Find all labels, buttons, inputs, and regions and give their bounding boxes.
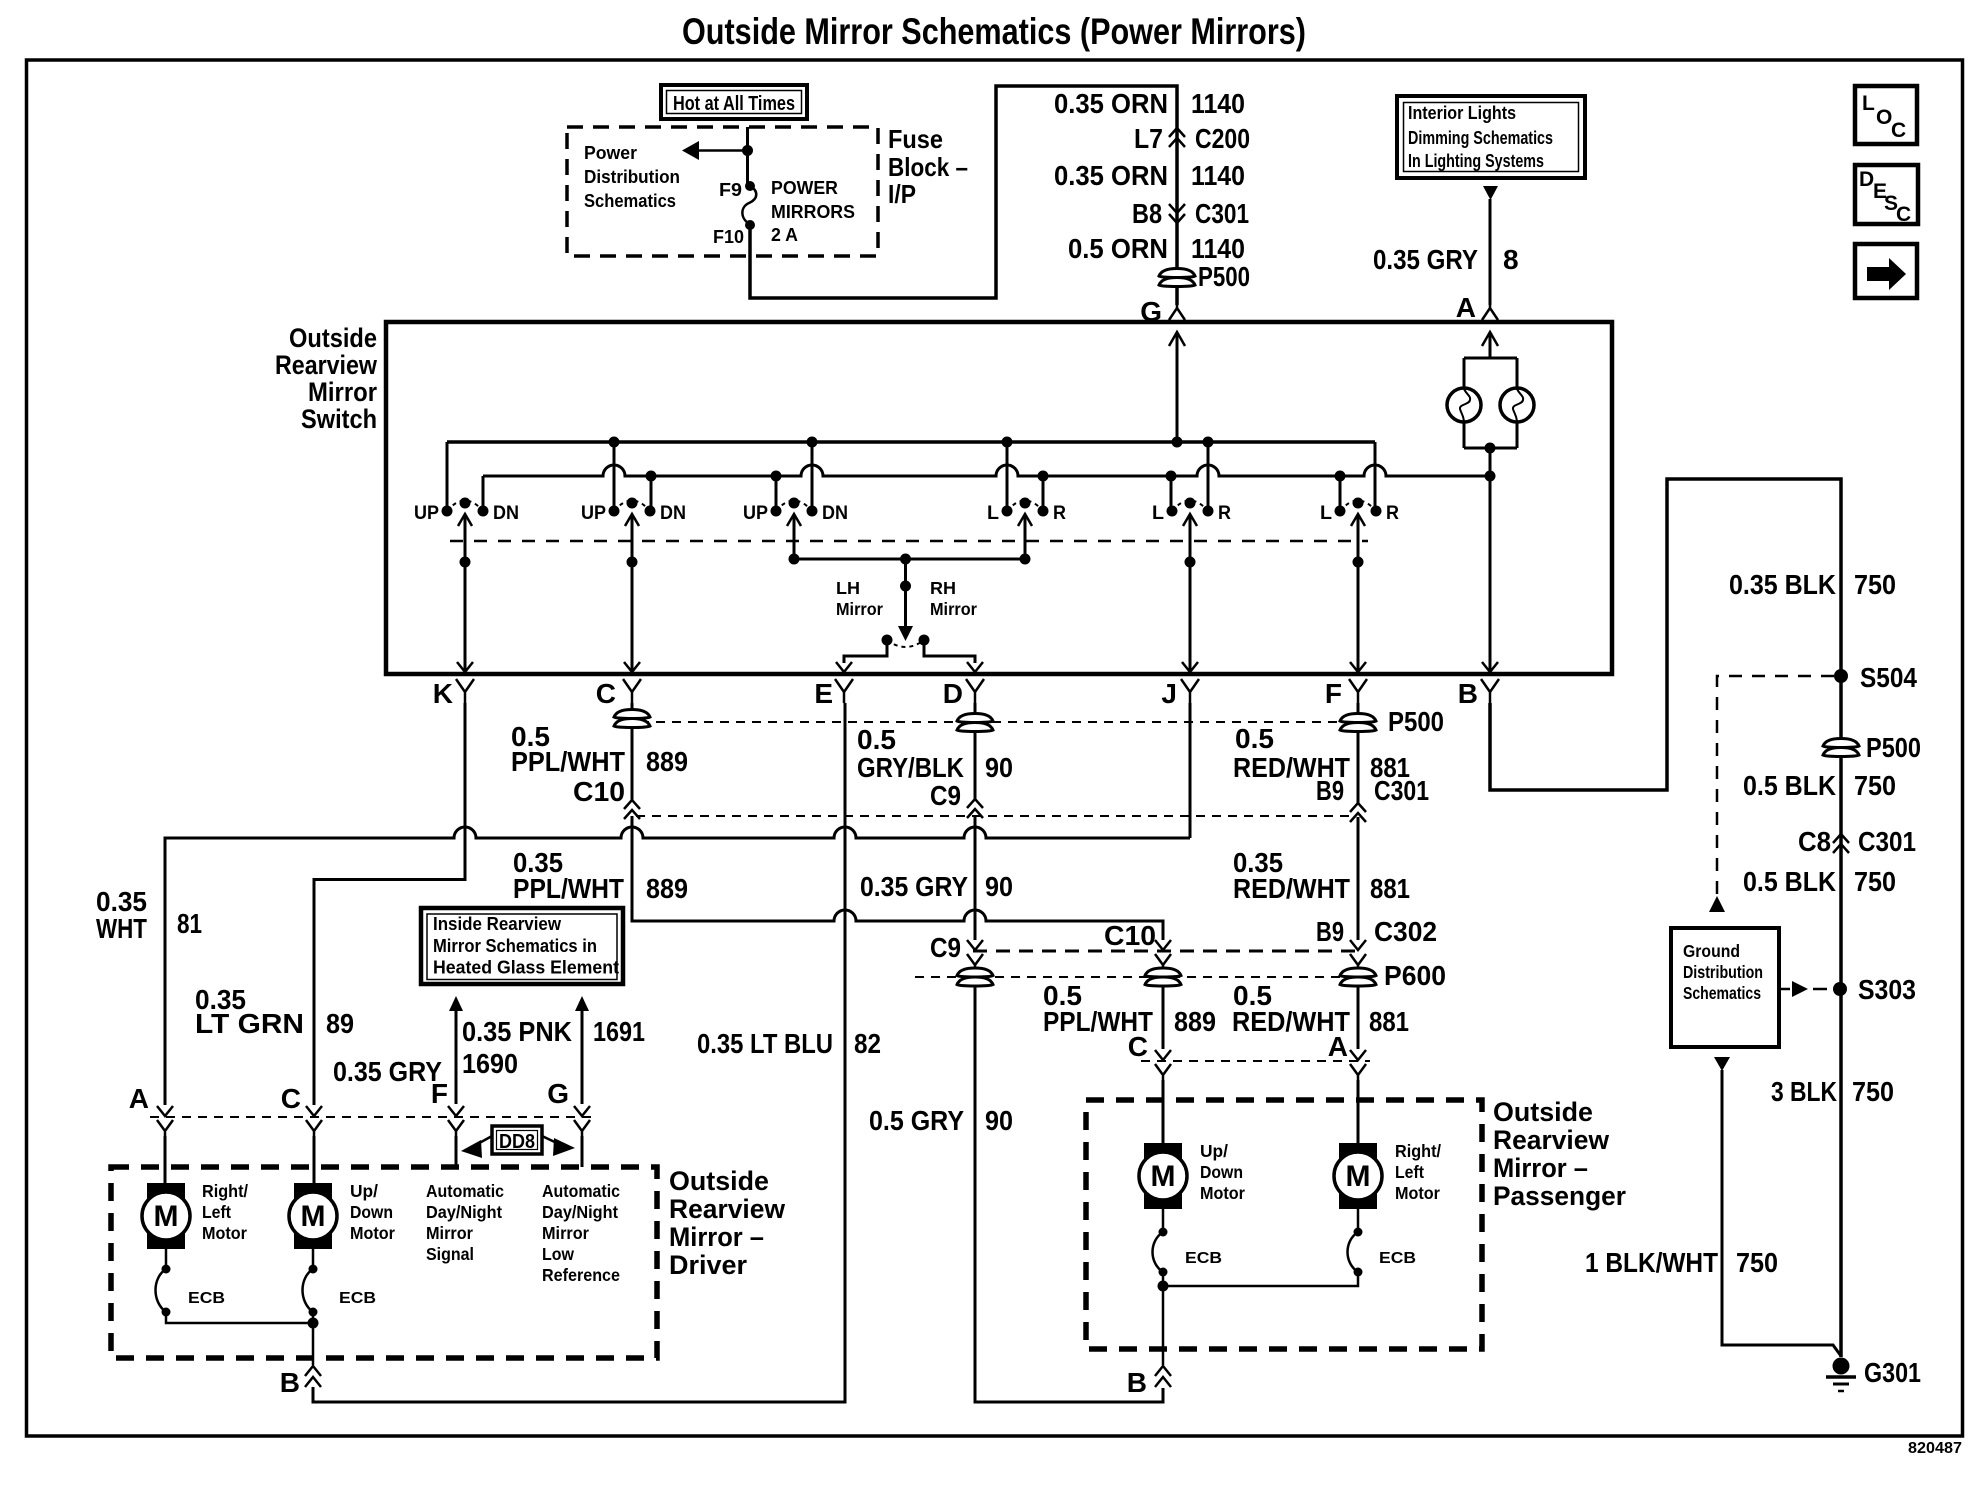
fuse block I/P dashed box — [567, 127, 878, 256]
svg-text:Driver: Driver — [669, 1250, 747, 1280]
wire: switch B to ground bus 0.35 BLK 750 — [1490, 479, 1841, 1357]
svg-text:Hot at All Times: Hot at All Times — [673, 93, 795, 115]
wire: left/right 1 common to selector — [1024, 514, 1027, 559]
terminal G of mirror switch — [1140, 296, 1185, 327]
svg-text:90: 90 — [985, 1105, 1013, 1136]
junction on second bus — [1166, 471, 1177, 482]
svg-text:L: L — [1152, 503, 1164, 524]
terminal B9 C302 into P600 (RED/WHT 881) — [1350, 940, 1366, 950]
wire: selector R to terminal D — [924, 645, 975, 663]
svg-text:Motor: Motor — [202, 1223, 247, 1243]
label: Power Distribution Schematics — [584, 143, 680, 211]
svg-text:Left: Left — [202, 1202, 231, 1222]
svg-text:C301: C301 — [1195, 198, 1249, 229]
connector C301 pin C8 — [1798, 826, 1916, 857]
switch driver up/down contacts (pivot x=465) — [414, 498, 519, 527]
svg-text:Outside Mirror Schematics (Pow: Outside Mirror Schematics (Power Mirrors… — [682, 11, 1306, 52]
label: Automatic Day/Night Mirror Low Reference — [542, 1181, 620, 1285]
svg-text:0.35 LT BLU: 0.35 LT BLU — [697, 1028, 833, 1059]
svg-text:MIRRORS: MIRRORS — [771, 202, 855, 222]
connector P600 at RED/WHT column — [1340, 968, 1376, 986]
junction on second bus — [771, 471, 782, 482]
splice S303 — [1833, 982, 1847, 996]
wire: switch common to terminal J — [1189, 514, 1192, 672]
svg-text:889: 889 — [646, 746, 688, 777]
wire: up/down 3 common to selector — [793, 514, 796, 559]
motor M (passenger right/left) — [1334, 1143, 1382, 1209]
label: 0.35 RED/WHT 881 — [1233, 847, 1410, 904]
connector DD8 — [492, 1126, 542, 1154]
svg-text:S504: S504 — [1860, 662, 1917, 693]
svg-text:1140: 1140 — [1191, 233, 1245, 264]
svg-text:L: L — [1320, 503, 1332, 524]
svg-text:Outside: Outside — [1493, 1097, 1593, 1127]
junction: lamp return joins second bus — [1485, 471, 1496, 482]
wire: switch supply bus (top) — [447, 440, 1375, 444]
ECB thermal breaker (driver up/down) — [303, 1265, 318, 1317]
svg-text:E: E — [814, 678, 833, 709]
switch left/right contacts 3 (pivot x=1358) — [1320, 498, 1399, 527]
switch left/right contacts 1 (pivot x=1025) — [987, 498, 1066, 527]
svg-text:1690: 1690 — [462, 1048, 518, 1079]
wire: switch common to terminal K — [464, 514, 467, 672]
label: 0.5 BLK 750 (lower) — [1743, 866, 1896, 897]
node: Hot at All Times label box — [661, 85, 807, 119]
svg-text:Right/: Right/ — [1395, 1141, 1441, 1161]
connector P500 on ground bus — [1823, 732, 1921, 763]
label: 0.35 ORN 1140 (middle) — [1054, 160, 1245, 191]
junction on supply bus — [807, 437, 818, 448]
svg-text:Heated Glass Element: Heated Glass Element — [433, 958, 619, 978]
svg-text:C8: C8 — [1798, 826, 1831, 857]
svg-text:Distribution: Distribution — [584, 167, 680, 187]
wire: A internal drop to lamps — [1482, 332, 1498, 346]
svg-text:0.35 GRY: 0.35 GRY — [860, 871, 968, 902]
svg-text:POWER: POWER — [771, 178, 838, 198]
svg-text:Outside: Outside — [669, 1166, 769, 1196]
svg-text:Day/Night: Day/Night — [426, 1202, 502, 1222]
icon: forward arrow box — [1855, 244, 1917, 298]
svg-text:C9: C9 — [930, 780, 961, 811]
connector plane dashed line (C301/C9/C10, y=816) — [636, 815, 1354, 817]
wire: selector feed junction — [794, 558, 1025, 561]
wire: interior lights to terminal A (0.35 GRY 8) — [1489, 199, 1492, 305]
svg-text:82: 82 — [854, 1028, 881, 1059]
svg-text:Motor: Motor — [350, 1223, 395, 1243]
svg-text:WHT: WHT — [96, 913, 147, 944]
label: Right/ Left Motor (passenger) — [1395, 1141, 1441, 1203]
svg-text:A: A — [1328, 1031, 1348, 1062]
junction on second bus — [1038, 471, 1049, 482]
svg-text:ECB: ECB — [1379, 1250, 1416, 1267]
icon: LOC box — [1855, 86, 1917, 144]
svg-text:Rearview: Rearview — [1493, 1125, 1610, 1155]
svg-text:0.5 BLK: 0.5 BLK — [1743, 866, 1836, 897]
node: Interior Lights Dimming Schematics in Lighting Systems box — [1397, 96, 1585, 178]
junction on supply bus — [1172, 437, 1183, 448]
svg-text:Rearview: Rearview — [669, 1194, 786, 1224]
junction on supply bus — [609, 437, 620, 448]
node: Inside Rearview Mirror Schematics in Heated Glass Element box — [421, 908, 623, 984]
label: 0.5 GRY/BLK 90 / C9 — [857, 724, 1013, 811]
connector C9 (0.5 GRY/BLK to 0.35 GRY) — [967, 799, 983, 818]
wire: 0.5 GRY 90 to passenger B — [975, 985, 1163, 1402]
svg-text:F10: F10 — [713, 227, 744, 247]
ECB thermal breaker (passenger up/down) — [1153, 1228, 1168, 1277]
svg-text:Mirror –: Mirror – — [669, 1222, 764, 1252]
svg-text:Outside: Outside — [289, 323, 377, 353]
svg-text:0.5: 0.5 — [857, 724, 896, 755]
svg-text:L7: L7 — [1134, 123, 1163, 154]
terminal G of driver mirror — [574, 1106, 590, 1116]
outside rearview mirror driver dashed box — [111, 1167, 657, 1358]
arrow: ground distribution box to S303 — [1779, 981, 1827, 997]
svg-text:I/P: I/P — [888, 179, 916, 209]
svg-text:K: K — [433, 678, 453, 709]
svg-text:RH: RH — [930, 578, 956, 598]
svg-text:0.5 GRY: 0.5 GRY — [869, 1105, 964, 1136]
svg-text:G: G — [547, 1078, 569, 1109]
label: Automatic Day/Night Mirror Signal — [426, 1181, 504, 1264]
mechanical coupling dashed line — [450, 540, 1368, 543]
svg-text:0.35 ORN: 0.35 ORN — [1054, 160, 1168, 191]
svg-text:M: M — [301, 1200, 326, 1233]
label: Up/ Down Motor (passenger) — [1200, 1141, 1245, 1203]
svg-text:C: C — [281, 1083, 301, 1114]
wire: arrow to Power Distribution Schematics — [682, 141, 748, 160]
label: 0.35 GRY 8 — [1373, 244, 1519, 275]
svg-text:F9: F9 — [719, 180, 742, 200]
svg-text:DN: DN — [822, 503, 848, 524]
outside rearview mirror switch box — [386, 322, 1612, 674]
label: 0.5 PPL/WHT 889 / C10 — [511, 721, 688, 807]
svg-text:2 A: 2 A — [771, 225, 798, 245]
terminal C of mirror switch — [596, 678, 641, 709]
wire: selector L to terminal E — [844, 645, 887, 663]
svg-text:889: 889 — [646, 873, 688, 904]
driver mirror connector dashed line y=1117 — [150, 1116, 597, 1118]
label: 0.5 PPL/WHT 889 (passenger) — [1043, 980, 1216, 1037]
svg-text:G301: G301 — [1864, 1357, 1921, 1388]
terminal B of mirror switch — [1458, 678, 1499, 709]
svg-text:Interior Lights: Interior Lights — [1408, 103, 1516, 123]
wire: switch common to terminal F — [1357, 514, 1360, 672]
wire: hot feed into fuse F9 — [746, 127, 749, 183]
connector P500 at D — [957, 714, 993, 732]
svg-text:Low: Low — [542, 1244, 574, 1264]
svg-text:Mirror: Mirror — [930, 599, 977, 619]
svg-text:C: C — [1891, 119, 1906, 142]
svg-text:0.5 BLK: 0.5 BLK — [1743, 770, 1836, 801]
terminal A of mirror switch — [1456, 292, 1498, 323]
connector row dashed line through P600, y=977 — [915, 976, 1378, 978]
svg-text:LT GRN: LT GRN — [195, 1008, 304, 1039]
svg-text:C200: C200 — [1195, 123, 1250, 154]
wire: 0.5 RED/WHT 881 to passenger right/left motor — [1357, 985, 1360, 1049]
svg-text:Motor: Motor — [1200, 1183, 1245, 1203]
label: 3 BLK 750 — [1771, 1076, 1894, 1107]
terminal D of mirror switch — [943, 678, 984, 709]
svg-text:D: D — [943, 678, 963, 709]
wire: fuse F10 output to switch terminal G (0.5 ORN 1140) — [750, 86, 1177, 305]
svg-text:81: 81 — [177, 908, 202, 939]
wire: driver ECB common join — [166, 1312, 313, 1365]
terminal C of driver mirror — [306, 1106, 322, 1116]
label: Outside Rearview Mirror Switch — [275, 323, 378, 434]
svg-text:B9: B9 — [1316, 916, 1344, 947]
wire: C column 0.5 PPL/WHT 889 — [631, 703, 634, 712]
svg-text:M: M — [154, 1200, 179, 1233]
wire: 0.35 RED/WHT 881 down to C302 — [1357, 817, 1360, 940]
svg-text:889: 889 — [1174, 1006, 1216, 1037]
connector C301 pin B8 — [1132, 198, 1249, 229]
terminal E of mirror switch — [814, 678, 853, 709]
switch up/down contacts 3 (pivot x=794) — [743, 498, 848, 527]
svg-text:P500: P500 — [1866, 732, 1921, 763]
svg-text:GRY/BLK: GRY/BLK — [857, 752, 964, 783]
terminal C10 into P600 (PPL/WHT 889) — [1155, 940, 1171, 950]
connector P500 at F — [1340, 714, 1376, 732]
label: 0.35 LT GRN 89 — [195, 984, 354, 1039]
svg-text:1140: 1140 — [1191, 160, 1245, 191]
wire: passenger ECB common join — [1163, 1272, 1358, 1365]
wire: lamp return to terminal B — [1489, 476, 1492, 672]
label: Outside Rearview Mirror - Driver — [669, 1166, 786, 1280]
label: 0.5 RED/WHT 881 (passenger) — [1232, 980, 1409, 1037]
wire: G internal drop to supply bus — [1169, 332, 1185, 346]
connector P500 on ORN feed — [1159, 261, 1250, 292]
svg-text:Ground: Ground — [1683, 941, 1740, 961]
wire: motors to ECBs (passenger) — [1162, 1209, 1165, 1232]
svg-text:B8: B8 — [1132, 198, 1162, 229]
svg-text:A: A — [1456, 292, 1476, 323]
svg-text:C: C — [596, 678, 616, 709]
svg-text:C10: C10 — [573, 776, 625, 807]
motor M (driver up/down) — [289, 1183, 337, 1249]
connector C10 (0.5 to 0.35 PPL/WHT) — [624, 800, 640, 819]
svg-text:Switch: Switch — [301, 404, 377, 434]
svg-text:P500: P500 — [1198, 261, 1250, 292]
icon: DESC box — [1855, 165, 1918, 226]
svg-text:D: D — [1859, 168, 1874, 191]
label: Fuse Block - I/P — [888, 124, 968, 209]
svg-text:Dimming Schematics: Dimming Schematics — [1408, 128, 1553, 148]
svg-text:Rearview: Rearview — [275, 350, 378, 380]
terminal B of driver mirror — [280, 703, 845, 1402]
terminal C of passenger mirror — [1155, 1050, 1171, 1060]
node: Ground Distribution Schematics box — [1671, 928, 1779, 1047]
svg-text:DD8: DD8 — [499, 1131, 535, 1153]
svg-text:C10: C10 — [1104, 920, 1156, 951]
svg-text:0.35 GRY: 0.35 GRY — [1373, 244, 1478, 275]
svg-text:PPL/WHT: PPL/WHT — [513, 873, 624, 904]
svg-text:In Lighting Systems: In Lighting Systems — [1408, 151, 1544, 171]
svg-text:A: A — [129, 1083, 149, 1114]
outside rearview mirror passenger dashed box — [1086, 1100, 1482, 1349]
fuse F9/F10 POWER MIRRORS 2 A — [742, 181, 756, 230]
svg-text:B9: B9 — [1316, 775, 1344, 806]
svg-text:UP: UP — [414, 503, 439, 524]
terminal F of mirror switch — [1325, 678, 1367, 709]
wire: ground distribution box to G301 (1 BLK/WHT 750) — [1714, 1057, 1730, 1071]
junction on supply bus — [1002, 437, 1013, 448]
svg-text:P500: P500 — [1388, 706, 1444, 737]
svg-text:B: B — [1458, 678, 1478, 709]
svg-text:Mirror: Mirror — [542, 1223, 589, 1243]
wire: into passenger box — [1162, 1080, 1165, 1143]
svg-text:Up/: Up/ — [350, 1181, 378, 1201]
svg-text:Automatic: Automatic — [542, 1181, 620, 1201]
svg-text:750: 750 — [1852, 1076, 1894, 1107]
svg-text:M: M — [1151, 1160, 1176, 1193]
label: 0.35 WHT 81 — [96, 886, 202, 944]
svg-text:J: J — [1161, 678, 1177, 709]
wire: 0.35 GRY 1690 day/night signal (F) — [449, 996, 463, 1104]
arrow DD8 to G terminal — [542, 1136, 575, 1156]
wire: 0.35 PNK 1691 day/night low reference (G) — [575, 996, 589, 1104]
dashed wire: S504 to ground distribution schematics — [1717, 676, 1834, 898]
svg-text:Motor: Motor — [1395, 1183, 1440, 1203]
splice S504 — [1834, 669, 1848, 683]
wire: F column 0.5 RED/WHT 881 — [1357, 703, 1360, 713]
label: 0.35 BLK 750 — [1729, 569, 1896, 600]
svg-text:Down: Down — [1200, 1162, 1243, 1182]
svg-text:C: C — [1896, 203, 1911, 226]
ECB thermal breaker (passenger right/left) — [1348, 1228, 1363, 1277]
label: 0.35 ORN 1140 (upper) — [1054, 88, 1245, 119]
svg-text:0.35 PNK: 0.35 PNK — [462, 1016, 572, 1047]
svg-text:R: R — [1218, 503, 1231, 524]
svg-text:1691: 1691 — [593, 1016, 645, 1047]
LH/RH mirror selector switch — [882, 635, 930, 648]
motor M (driver right/left) — [142, 1183, 190, 1249]
switch left/right contacts 2 (pivot x=1190) — [1152, 498, 1231, 527]
ECB thermal breaker (driver right/left) — [156, 1265, 171, 1317]
label: 0.5 BLK 750 (upper) — [1743, 770, 1896, 801]
wire: J column 0.35 WHT to driver A (with hops) — [1189, 703, 1192, 838]
terminal A of passenger mirror — [1350, 1050, 1366, 1060]
svg-text:881: 881 — [1370, 873, 1410, 904]
svg-text:750: 750 — [1736, 1247, 1778, 1278]
svg-text:Schematics: Schematics — [1683, 983, 1761, 1003]
svg-text:Mirror –: Mirror – — [1493, 1153, 1588, 1183]
connector row dashed line (C302/C9/C10, y=951) — [973, 950, 1360, 953]
terminal C9 into P600 (GRY 90) — [967, 940, 983, 950]
svg-text:Reference: Reference — [542, 1265, 620, 1285]
label: LH Mirror — [836, 578, 883, 619]
wire: selector stem — [904, 559, 907, 627]
svg-text:C: C — [1128, 1031, 1148, 1062]
label: 0.5 ORN 1140 (lower) — [1068, 233, 1245, 264]
connector P600 at PPL/WHT column — [1145, 968, 1181, 986]
wire: motors to ECBs (driver) — [165, 1249, 168, 1269]
arrow DD8 to F terminal — [461, 1136, 492, 1158]
svg-text:8: 8 — [1503, 244, 1519, 275]
svg-text:Inside Rearview: Inside Rearview — [433, 914, 562, 934]
connector plane dashed line (switch output, y=722) — [640, 721, 1342, 723]
svg-text:F: F — [1325, 678, 1342, 709]
svg-text:Block –: Block – — [888, 152, 968, 182]
junction on supply bus — [1203, 437, 1214, 448]
svg-text:C9: C9 — [930, 932, 961, 963]
svg-text:LH: LH — [836, 578, 860, 598]
svg-text:PPL/WHT: PPL/WHT — [511, 746, 625, 777]
wire: 0.35 PPL/WHT 889 to passenger C10 (with hops) — [632, 816, 1163, 940]
label: Up/ Down Motor — [350, 1181, 395, 1243]
illumination lamp pair — [1447, 358, 1534, 476]
wire: feeds from buses to switch contacts — [614, 442, 1375, 507]
wire: D column 0.5 GRY/BLK 90 — [974, 703, 977, 713]
svg-text:UP: UP — [581, 503, 606, 524]
junction on second bus — [1335, 471, 1346, 482]
svg-text:Signal: Signal — [426, 1244, 474, 1264]
svg-text:ECB: ECB — [1185, 1250, 1222, 1267]
svg-text:M: M — [1346, 1160, 1371, 1193]
terminal K of mirror switch — [433, 678, 474, 709]
svg-text:R: R — [1386, 503, 1399, 524]
svg-text:P600: P600 — [1384, 960, 1446, 991]
svg-text:S303: S303 — [1858, 974, 1916, 1005]
label: Outside Rearview Mirror - Passenger — [1493, 1097, 1626, 1211]
junction at fuse feed — [742, 145, 753, 156]
svg-text:Fuse: Fuse — [888, 124, 943, 154]
svg-text:R: R — [1053, 503, 1066, 524]
terminal J of mirror switch — [1161, 678, 1199, 709]
wire: driver terminals into mirror box — [165, 1136, 582, 1184]
svg-text:C301: C301 — [1858, 826, 1916, 857]
arrow from Interior Lights box — [1483, 186, 1498, 200]
svg-text:881: 881 — [1369, 1006, 1409, 1037]
label: 0.35 LT BLU 82 — [697, 1028, 881, 1059]
passenger mirror connector dashed line y=1061 — [1141, 1060, 1370, 1062]
label: 0.5 GRY 90 — [869, 1105, 1013, 1136]
svg-text:750: 750 — [1854, 569, 1896, 600]
svg-text:820487: 820487 — [1908, 1440, 1962, 1457]
svg-text:C301: C301 — [1374, 775, 1429, 806]
junction on second bus — [646, 471, 657, 482]
svg-text:B: B — [1127, 1367, 1147, 1398]
wire: 0.35 GRY 90 down to C9 connector — [974, 815, 977, 940]
svg-text:90: 90 — [985, 871, 1013, 902]
svg-text:Left: Left — [1395, 1162, 1424, 1182]
svg-text:Schematics: Schematics — [584, 191, 676, 211]
label: 0.35 PPL/WHT 889 — [513, 847, 688, 904]
svg-text:0.35 BLK: 0.35 BLK — [1729, 569, 1836, 600]
ground G301 — [1826, 1357, 1921, 1391]
connector C301 pin B9 — [1350, 803, 1366, 822]
label: 0.5 RED/WHT 881 / B9 C301 — [1233, 723, 1429, 806]
label: Right/ Left Motor — [202, 1181, 248, 1243]
svg-text:Up/: Up/ — [1200, 1141, 1228, 1161]
svg-text:Power: Power — [584, 143, 637, 163]
svg-text:C302: C302 — [1374, 916, 1437, 947]
svg-text:UP: UP — [743, 503, 768, 524]
label: 0.35 PNK 1691 — [462, 1016, 645, 1047]
svg-text:Day/Night: Day/Night — [542, 1202, 618, 1222]
svg-text:90: 90 — [985, 752, 1013, 783]
svg-text:Mirror: Mirror — [836, 599, 883, 619]
motor M (passenger up/down) — [1139, 1143, 1187, 1209]
terminal A of driver mirror — [157, 1106, 173, 1116]
svg-text:Right/: Right/ — [202, 1181, 248, 1201]
wire: switch common to terminal C — [631, 514, 634, 672]
svg-text:ECB: ECB — [188, 1290, 225, 1307]
svg-text:Mirror: Mirror — [308, 377, 377, 407]
label: POWER MIRRORS 2 A — [771, 178, 855, 245]
svg-text:DN: DN — [493, 503, 519, 524]
svg-text:DN: DN — [660, 503, 686, 524]
connector P500 at C — [614, 710, 650, 728]
